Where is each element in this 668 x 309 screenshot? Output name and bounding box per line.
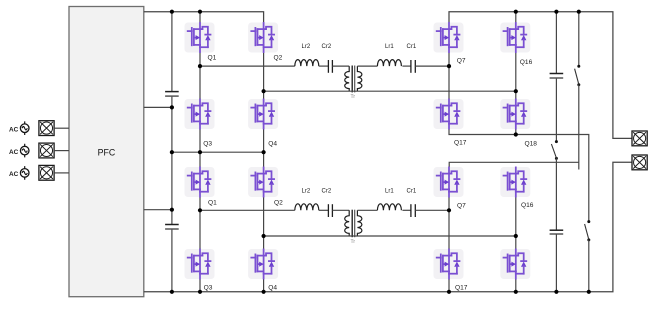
svg-text:Q2: Q2 [274, 54, 283, 61]
wire h1 Lr1 to Cr1 [402, 209, 411, 211]
svg-text:Cr1: Cr1 [407, 44, 417, 50]
junction node sec-B top [514, 89, 518, 93]
junction bottom rail / A [198, 290, 202, 294]
junction mid rail / legB [262, 150, 266, 154]
junction top rail / outC1 [554, 10, 558, 14]
wire AC3 to PFC [54, 172, 69, 174]
wire h0 leg sec-B low [515, 129, 517, 135]
capacitor Cr2 h1 [322, 188, 333, 217]
svg-text:Q17: Q17 [455, 285, 468, 292]
svg-text:Q1: Q1 [208, 199, 217, 206]
AC source V2 [20, 144, 29, 158]
wire h0 Q leg sec-B high [515, 12, 517, 23]
svg-text:Tr: Tr [351, 94, 356, 100]
capacitor bus C lower [165, 225, 179, 230]
junction bottom rail / secB [514, 290, 518, 294]
wire switch column S1 bottom [578, 85, 580, 170]
switch S3 [585, 220, 591, 241]
svg-text:PFC: PFC [98, 148, 116, 158]
wire h1 Cr2 to Tr [332, 209, 349, 211]
AC source V3 [20, 166, 29, 180]
inductor Lr2 h0 [295, 44, 319, 66]
wire h0 Q leg sec-A mid [448, 53, 450, 100]
capacitor Cr1 h1 [407, 188, 417, 217]
svg-text:Q4: Q4 [268, 284, 277, 291]
junction node sec-A bottom [447, 208, 451, 212]
wire h0 Q leg sec-B mid [515, 53, 517, 100]
wire h0 leg B low [263, 129, 265, 152]
switch S2 [551, 140, 558, 160]
wire h1 Tr to Lr1 [357, 209, 377, 211]
wire h1 legs bottom secA [448, 279, 450, 292]
transistor Q18 [500, 99, 530, 129]
wire h1 legs bottom B [263, 279, 265, 292]
wire out column 1 top [555, 12, 557, 74]
transistor Q17 [434, 99, 464, 129]
junction bottom rail / S3 [587, 290, 591, 294]
inductor Lr1 h1 [377, 188, 401, 210]
wire h1 Q leg sec-B mid [515, 197, 517, 249]
junction top rail / Q16 [514, 10, 518, 14]
wire bus column middle [171, 96, 173, 224]
svg-text:Lr1: Lr1 [385, 44, 394, 50]
wire h0 Cr1 to node sec [415, 65, 449, 67]
transformer Tr h1 [345, 210, 362, 245]
terminal fuse F3 [39, 165, 54, 180]
capacitor bus C upper [165, 92, 179, 97]
svg-text:Q1: Q1 [208, 54, 217, 61]
transistor Q3 (lower) [185, 249, 215, 279]
wire h0 Q leg B-mid [263, 53, 265, 100]
junction mid rail / bus [170, 150, 174, 154]
wire h0 B-leg link under Tr [264, 90, 516, 92]
wire h0 Cr2 to Tr [332, 65, 349, 67]
junction bottom rail / outC [554, 290, 558, 294]
transistor Q3 [185, 99, 215, 129]
wire h1 Q leg A-mid [199, 197, 201, 249]
junction node A top [198, 64, 202, 68]
PFC converter block [69, 7, 144, 297]
svg-text:Q16: Q16 [521, 202, 534, 209]
svg-text:Lr1: Lr1 [385, 188, 394, 194]
wire h1 B-leg link under Tr [264, 235, 516, 237]
wire top rail primary [144, 12, 264, 23]
wire h1 legs bottom secB [515, 279, 517, 292]
wire h1 Lr2 to Cr2 [319, 209, 329, 211]
wire h0 Tr to Lr1 [357, 65, 377, 67]
junction top rail / S1 [577, 10, 581, 14]
svg-text:Q17: Q17 [454, 139, 467, 146]
terminal fuse F1 [39, 121, 54, 136]
wire h1 Q leg B-mid [263, 197, 265, 249]
junction node B top [262, 89, 266, 93]
wire h0 Lr1 to Cr1 [402, 65, 411, 67]
transistor Q4 [248, 99, 278, 129]
wire h0 node A to Lr2 [200, 65, 295, 67]
wire h1 legs bottom A [199, 279, 201, 292]
transistor Q17 (lower) [434, 249, 464, 279]
junction PFC stub lower [170, 208, 174, 212]
junction node sec-A top [447, 64, 451, 68]
wire h1 Cr1 to node sec [415, 209, 449, 211]
svg-text:Q4: Q4 [268, 141, 277, 148]
junction bottom rail / B [262, 290, 266, 294]
svg-text:Q7: Q7 [457, 203, 466, 210]
wire AC1 to PFC [54, 127, 69, 129]
svg-text:Cr1: Cr1 [407, 188, 417, 194]
junction bottom rail / secA [447, 290, 451, 294]
wire switch column S3 bottom [588, 240, 590, 292]
svg-text:Q3: Q3 [204, 284, 213, 291]
svg-text:Q3: Q3 [203, 141, 212, 148]
inductor Lr2 h1 [295, 188, 319, 210]
wire out column 1 bottom [555, 234, 557, 292]
svg-text:Cr2: Cr2 [322, 188, 332, 194]
junction mid rail / legA [198, 150, 202, 154]
svg-text:AC: AC [9, 126, 19, 133]
transistor Q1 (lower) [185, 167, 215, 197]
svg-text:Lr2: Lr2 [302, 44, 311, 50]
wire out column 1 mid [555, 78, 557, 141]
transistor Q16 (lower) [500, 167, 530, 197]
switch S1 [575, 65, 581, 87]
wire top rail secondary + right drop to +OUT [449, 12, 632, 139]
wire PFC stub lower [144, 209, 172, 211]
capacitor Cr2 h0 [322, 44, 333, 73]
junction PFC stub upper [170, 105, 174, 109]
transformer Tr h0 [345, 66, 362, 101]
wire switch column S1 top [578, 12, 580, 67]
transistor Q1 [185, 23, 215, 53]
junction sec bot rail / Q18 [514, 132, 518, 136]
svg-text:Cr2: Cr2 [322, 44, 332, 50]
wire out column 1 low [555, 158, 557, 230]
svg-text:Lr2: Lr2 [302, 188, 311, 194]
junction top rail / bus [170, 10, 174, 14]
wire h1 Q leg A-high [199, 152, 201, 167]
junction top rail / Q1 [198, 10, 202, 14]
terminal +OUT [632, 131, 647, 146]
wire h0 Lr2 to Cr2 [319, 65, 329, 67]
inductor Lr1 h0 [377, 44, 401, 66]
wire h0 Q leg A-high [199, 12, 201, 23]
wire bus column lower [171, 229, 173, 292]
terminal -OUT [632, 155, 647, 170]
wire sec top rail h1 [449, 162, 578, 167]
svg-text:Q16: Q16 [520, 59, 533, 66]
terminal fuse F2 [39, 143, 54, 158]
transistor Q18 (lower) [500, 249, 530, 279]
wire primary mid rail (shared) [172, 151, 264, 153]
junction node A bottom [198, 208, 202, 212]
transistor Q2 [248, 23, 278, 53]
capacitor out C1 [550, 74, 564, 79]
svg-text:AC: AC [9, 149, 19, 156]
svg-text:Q7: Q7 [457, 58, 466, 65]
transistor Q7 (lower) [434, 167, 464, 197]
svg-text:AC: AC [9, 171, 19, 178]
wire PFC stub upper [144, 106, 172, 108]
svg-text:Tr: Tr [351, 239, 356, 245]
junction node B bottom [262, 234, 266, 238]
transistor Q7 [434, 23, 464, 53]
wire bottom rail + right rise to -OUT [144, 162, 632, 291]
wire sec bottom rail h0 [449, 129, 589, 222]
capacitor out C2 [550, 230, 564, 234]
wire h0 Q leg A-mid [199, 53, 201, 100]
wire h0 leg A low [199, 129, 201, 152]
svg-text:Q2: Q2 [274, 199, 283, 206]
transistor Q2 (lower) [248, 167, 278, 197]
wire AC2 to PFC [54, 150, 69, 152]
wire h1 Q leg sec-A mid [448, 197, 450, 249]
wire h1 node A to Lr2 [200, 209, 295, 211]
junction node sec-B bottom [514, 234, 518, 238]
transistor Q4 (lower) [248, 249, 278, 279]
AC source V1 [20, 121, 29, 135]
transistor Q16 [500, 23, 530, 53]
wire h1 Q leg B-high [263, 152, 265, 167]
capacitor Cr1 h0 [407, 44, 417, 73]
junction bottom rail / bus [170, 290, 174, 294]
wire bus column upper [171, 12, 173, 92]
svg-text:Q18: Q18 [525, 140, 538, 147]
